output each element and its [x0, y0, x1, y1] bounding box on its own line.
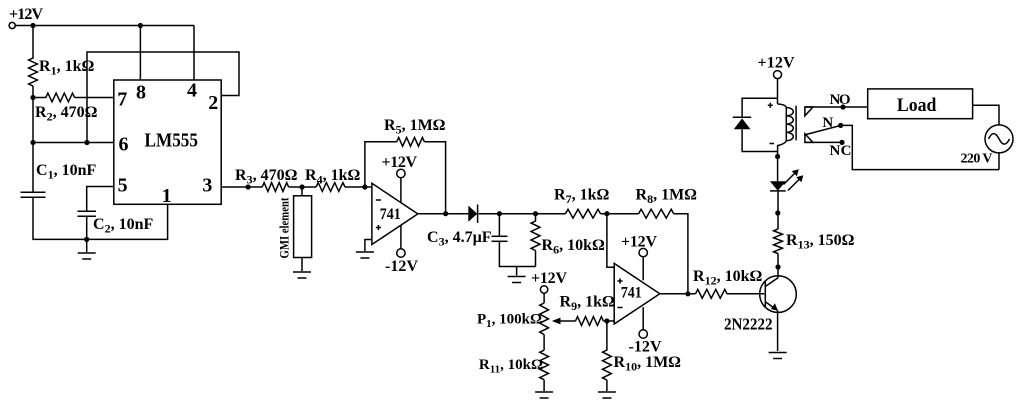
ground (op-amp1 + input): [356, 251, 374, 253]
wire pin 2 to pin 6 loop: [87, 52, 239, 143]
Load box: [868, 89, 973, 119]
svg-text:+12V: +12V: [9, 6, 43, 23]
ground (GMI element): [293, 271, 311, 273]
junction R7/R8/+input: [604, 211, 609, 216]
wire junction down to op-amp2 + input: [607, 214, 614, 268]
svg-text:R6, 10kΩ: R6, 10kΩ: [542, 237, 605, 257]
wire NC stub: [805, 141, 842, 143]
svg-text:8: 8: [136, 82, 146, 104]
node -12V op-amp1: [385, 249, 418, 275]
resistor R11: [540, 350, 549, 380]
svg-text:R3, 470Ω: R3, 470Ω: [235, 167, 298, 187]
junction minus input / R9 / R10: [604, 318, 609, 323]
wire C2 bottom: [86, 216, 88, 239]
wire +12V rail: [15, 25, 194, 27]
relay contact NO flag: [805, 107, 813, 116]
wire R8 to output (feedback): [674, 214, 688, 294]
wire diode to R7: [479, 213, 566, 215]
svg-text:NO: NO: [830, 92, 851, 108]
svg-text:C2, 10nF: C2, 10nF: [93, 216, 153, 236]
op-amp U2 741 triangle: [372, 183, 418, 244]
GMI element (sensor): [294, 196, 312, 258]
svg-text:4: 4: [187, 80, 197, 102]
LED D3: [770, 169, 803, 191]
relay armature (common): [806, 126, 841, 135]
diode D1: [468, 205, 477, 223]
svg-text:+12V: +12V: [621, 234, 657, 251]
wire ground stem C3/R6: [516, 267, 518, 276]
junction collector/R13: [775, 264, 780, 269]
wire op-amp2 output: [660, 293, 696, 295]
svg-text:+12V: +12V: [382, 154, 418, 171]
svg-text:R7, 1kΩ: R7, 1kΩ: [554, 187, 609, 207]
wire +12V to relay coil: [777, 79, 779, 104]
resistor R12: [696, 289, 728, 298]
resistor R13: [774, 229, 783, 254]
svg-text:R8, 1MΩ: R8, 1MΩ: [636, 187, 698, 207]
ground (555 timer circuit): [78, 239, 96, 259]
junction on rail at R1: [30, 23, 35, 28]
svg-text:C1, 10nF: C1, 10nF: [36, 162, 96, 182]
svg-text:GMI element: GMI element: [277, 197, 292, 259]
relay coil - mark: [770, 143, 775, 145]
svg-text:2: 2: [208, 92, 218, 114]
node +12V relay: [758, 54, 795, 78]
node +12V op-amp2: [621, 234, 657, 257]
op-amp2 minus sign: [617, 307, 622, 309]
wire C1 bottom to ground rail: [33, 197, 87, 239]
resistor R3: [262, 183, 288, 192]
wire R7 to R8: [601, 213, 639, 215]
wire R1 junction down to C1: [32, 98, 34, 193]
ground (C3/R6): [508, 276, 526, 278]
wire +12V to op-amp1: [400, 178, 402, 203]
svg-text:7: 7: [117, 89, 127, 111]
op-amp U3 741 triangle: [614, 263, 660, 324]
wire relay diode branch: [742, 98, 778, 151]
junction op-amp1 inverting input / feedback: [362, 184, 367, 189]
svg-text:R1, 1kΩ: R1, 1kΩ: [39, 58, 94, 78]
wire rail to pin 4: [193, 26, 195, 81]
svg-text:3: 3: [202, 175, 212, 197]
diode D2 flyback: [733, 117, 751, 129]
op-amp2 plus sign: [617, 278, 622, 283]
junction relay coil bottom: [775, 154, 780, 159]
wire 220V source bottom: [998, 153, 1000, 170]
wire R4 to op-amp 1 inverting input: [345, 186, 372, 188]
capacitor C1: [21, 192, 46, 197]
wire P1 to R11: [543, 335, 545, 351]
resistor R2: [33, 93, 114, 102]
wire R9 to P1 wiper (arrow): [552, 318, 576, 325]
wire R11 to ground: [543, 380, 545, 391]
svg-text:R2, 470Ω: R2, 470Ω: [35, 104, 98, 124]
wire pin 5 stub to C2: [87, 187, 114, 212]
op-amp1 plus sign: [376, 225, 381, 230]
relay coil + mark: [768, 103, 773, 108]
svg-text:5: 5: [118, 175, 128, 197]
node +12V potentiometer branch: [531, 270, 567, 293]
wire R3 to R4: [289, 186, 317, 188]
wire pin 1 to ground rail: [87, 204, 168, 239]
capacitor C2: [78, 211, 97, 216]
wire op-amp2 to -12V: [642, 307, 644, 330]
op-amp1 minus sign: [376, 199, 381, 201]
wire C3 stub: [498, 214, 500, 237]
junction NO: [840, 104, 845, 109]
svg-text:220 V: 220 V: [961, 152, 993, 167]
svg-text:6: 6: [119, 134, 129, 156]
resistor R1: [29, 26, 38, 98]
wire feedback loop right: [424, 142, 445, 214]
resistor R5: [397, 137, 425, 146]
svg-text:R11, 10kΩ: R11, 10kΩ: [479, 357, 543, 376]
svg-text:C3, 4.7µF: C3, 4.7µF: [427, 229, 492, 249]
relay core bar: [795, 106, 797, 141]
svg-text:+12V: +12V: [758, 54, 795, 71]
svg-text:1: 1: [162, 185, 172, 207]
junction pin6 / pin2 feedback: [84, 140, 89, 145]
junction ground node: [84, 237, 89, 242]
ground (R11): [535, 391, 553, 393]
relay K1 coil: [778, 104, 794, 152]
svg-text:R13, 150Ω: R13, 150Ω: [786, 232, 855, 252]
svg-text:Load: Load: [897, 95, 937, 116]
svg-text:2N2222: 2N2222: [724, 315, 773, 334]
node -12V op-amp2: [629, 330, 662, 356]
wire +12V to op-amp2: [642, 257, 644, 281]
ground (R10): [598, 391, 616, 393]
wire collector: [777, 254, 779, 278]
junction R6 tap: [533, 211, 538, 216]
wire R13 to LED: [777, 191, 779, 229]
node +12V supply terminal: [9, 6, 43, 29]
AC source 220V: [985, 125, 1013, 153]
svg-text:N: N: [822, 115, 833, 131]
wire GMI stub: [301, 187, 303, 196]
resistor R9: [576, 317, 604, 326]
wire NO contact to Load: [805, 106, 868, 108]
junction R1/R2/C1: [30, 95, 35, 100]
wire Load to 220V source: [973, 105, 999, 125]
svg-text:NC: NC: [830, 143, 852, 159]
wire R12 to transistor base: [727, 293, 764, 295]
svg-text:741: 741: [621, 284, 642, 301]
svg-text:741: 741: [380, 206, 401, 223]
wire pin 3 output: [221, 186, 262, 188]
junction NC: [839, 140, 844, 145]
junction pin3 line: [246, 184, 251, 189]
wire N to 220V return: [841, 125, 999, 169]
wire LED to relay: [777, 152, 779, 182]
wire op-amp1 output: [418, 213, 469, 215]
svg-text:+12V: +12V: [531, 270, 567, 287]
wire pin 6 stub: [33, 142, 114, 144]
relay contact NC flag: [805, 134, 813, 143]
resistor R10: [603, 321, 612, 391]
svg-text:R5, 1MΩ: R5, 1MΩ: [384, 117, 446, 137]
wire +12V to P1: [543, 293, 545, 303]
wire emitter to ground: [777, 310, 779, 351]
junction GMI tap: [299, 184, 304, 189]
svg-text:P1, 100kΩ: P1, 100kΩ: [477, 312, 542, 331]
svg-text:LM555: LM555: [145, 131, 199, 152]
svg-text:R12, 10kΩ: R12, 10kΩ: [693, 268, 762, 288]
wire C3 bottom to R6 bottom: [499, 241, 535, 266]
svg-text:R4, 1kΩ: R4, 1kΩ: [305, 167, 360, 187]
wire op-amp1 non-inverting input to ground: [365, 240, 372, 252]
resistor R6: [531, 214, 540, 267]
node +12V op-amp1: [382, 154, 418, 178]
svg-text:-12V: -12V: [385, 258, 418, 275]
junction C3 tap: [497, 211, 502, 216]
wire op-amp2 minus input: [603, 320, 614, 322]
potentiometer P1: [540, 303, 549, 335]
wire GMI to ground: [301, 258, 303, 272]
junction output / R8 feedback: [685, 291, 690, 296]
svg-text:R9, 1kΩ: R9, 1kΩ: [560, 294, 615, 314]
IC U1 LM555 body: [114, 80, 221, 204]
transistor Q1 2N2222: [760, 276, 797, 313]
junction LED/R13: [775, 210, 780, 215]
junction pin6 line left: [30, 140, 35, 145]
resistor R7: [566, 209, 601, 218]
junction N: [838, 123, 843, 128]
ground (emitter): [769, 352, 787, 354]
wire op-amp1 to -12V: [400, 225, 402, 249]
wire feedback loop left/top: [365, 142, 397, 187]
resistor R8: [639, 209, 674, 218]
junction on rail at pin 8: [138, 23, 143, 28]
svg-text:-12V: -12V: [629, 339, 662, 356]
svg-text:R10, 1MΩ: R10, 1MΩ: [614, 354, 682, 374]
wire rail to pin 8: [139, 26, 141, 81]
junction output / feedback: [443, 211, 448, 216]
resistor R4: [316, 183, 345, 192]
capacitor C3: [492, 236, 508, 241]
